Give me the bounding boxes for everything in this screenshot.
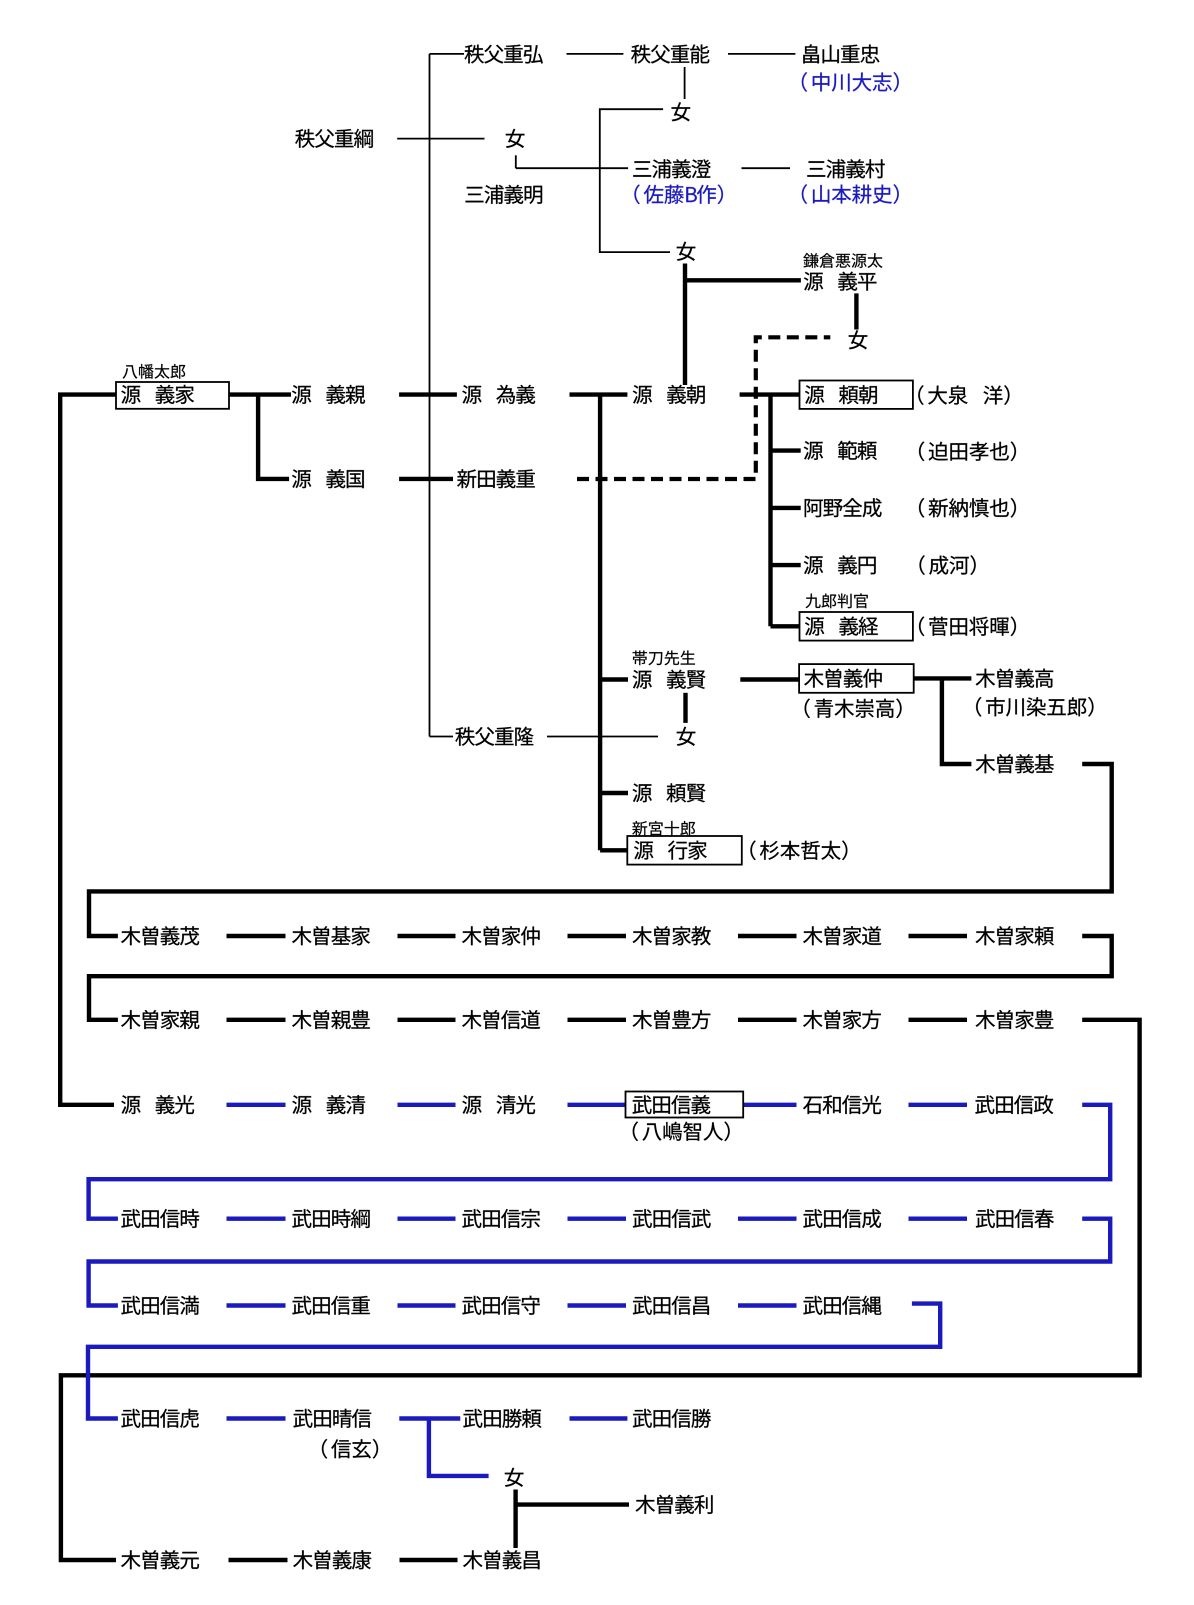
node （山本耕史） <box>802 184 899 204</box>
wire 重能-畠山重忠 <box>728 53 795 55</box>
node 木曽家親 <box>121 1010 199 1029</box>
wire row22 line 0 <box>227 1303 286 1307</box>
wire 女-木曽義利 <box>516 1502 629 1506</box>
wire 義清-清光 <box>398 1103 456 1107</box>
node 木曽義康 <box>293 1550 371 1569</box>
node 武田信重 <box>292 1296 369 1315</box>
wire row18 line 1 <box>398 934 456 938</box>
wire 信義box-石和信光 <box>743 1103 796 1107</box>
wire 義賢-義仲box <box>740 677 799 681</box>
wire 義元-義康 <box>229 1558 288 1562</box>
wire 信春-信満 connector <box>89 1219 1111 1306</box>
node 三浦義澄 <box>633 159 711 178</box>
node 武田勝頼 <box>463 1409 541 1428</box>
wire 義国-新田義重 <box>399 477 453 481</box>
wire 秩父 vertical <box>429 54 431 737</box>
wire 女-義昌 vertical <box>513 1490 517 1549</box>
wire 家豊-木曽義元 connector <box>61 1020 1140 1560</box>
node 源義清 <box>292 1095 365 1114</box>
node 源義経 <box>805 617 878 636</box>
wire 義平-女 vertical <box>854 293 858 329</box>
node 秩父重能 <box>631 44 709 63</box>
node 木曽豊方 <box>633 1010 711 1029</box>
node 秩父重弘 <box>465 45 543 64</box>
node 九郎判官 <box>806 593 868 608</box>
wire 義賢-女 vertical <box>683 693 687 723</box>
node 武田信勝 <box>633 1409 711 1428</box>
wire 義康-義昌 <box>400 1558 458 1562</box>
wire 晴信-勝頼 <box>399 1416 460 1420</box>
wire 重弘-重能 <box>567 53 624 55</box>
wire row21 line 0 <box>227 1216 286 1220</box>
node 秩父重綱 <box>295 129 373 148</box>
box 源義家 <box>116 382 229 409</box>
node 帯刀先生 <box>633 650 695 665</box>
wire 義経 stub <box>771 624 800 628</box>
wire 行家 stub <box>600 848 627 852</box>
wire row22 line 3 <box>738 1303 797 1307</box>
wire row21 line 4 <box>909 1216 968 1220</box>
node 木曽義元 <box>121 1550 199 1569</box>
wire row18 line 0 <box>227 934 286 938</box>
node 女 <box>506 129 525 148</box>
node 木曽家仲 <box>462 926 540 945</box>
wire row21 line 1 <box>398 1216 456 1220</box>
wire 重綱-女 <box>397 138 484 140</box>
wire 義光-義清 <box>227 1103 286 1107</box>
wire 義基-木曽義茂 connector <box>89 764 1112 936</box>
node 木曽義昌 <box>463 1550 539 1569</box>
node （迫田孝也） <box>919 441 1016 461</box>
wire 新田義重-女 dashed <box>577 337 830 479</box>
node 木曽義基 <box>976 754 1054 773</box>
wire 範頼 stub <box>771 448 801 452</box>
wire 義円 stub <box>771 563 801 567</box>
wire row19 line 1 <box>398 1018 456 1022</box>
wire 家頼-家親 connector <box>89 936 1112 1020</box>
node 秩父重隆 <box>455 727 533 746</box>
node 源清光 <box>462 1095 535 1114</box>
node 源義家 <box>121 385 194 404</box>
wire 義親 sibling vertical <box>258 395 289 479</box>
wire 晴信-女 vertical <box>429 1419 489 1476</box>
node （中川大志） <box>802 72 899 92</box>
node 武田信縄 <box>803 1296 881 1315</box>
wire 女-義澄 <box>516 167 628 169</box>
node 新田義重 <box>457 469 535 488</box>
wire 勝頼-信勝 <box>570 1416 628 1420</box>
box 源頼朝 <box>800 381 913 409</box>
wire 信縄-信虎 connector <box>88 1304 940 1419</box>
node 武田信武 <box>633 1209 711 1228</box>
node 女 <box>849 330 868 349</box>
node （佐藤B作） <box>634 184 723 204</box>
wire 重隆-女 <box>547 736 658 738</box>
node （成河） <box>920 555 976 575</box>
node 木曽信道 <box>462 1010 540 1029</box>
wire 石和信光-信政 <box>909 1103 968 1107</box>
node 源義平 <box>804 272 877 291</box>
wire 為義 children vertical <box>598 395 602 851</box>
wire 義澄-義村 <box>742 167 791 169</box>
wire 義仲box-義高 <box>914 676 972 680</box>
wire row19 line 3 <box>738 1018 797 1022</box>
node 源義光 <box>121 1095 194 1114</box>
node 木曽家方 <box>803 1010 881 1029</box>
wire 信政-信時 connector <box>89 1105 1111 1219</box>
box 源行家 <box>627 836 742 865</box>
wire 女-義明 vertical <box>515 155 517 168</box>
wire 女-義朝 vertical <box>683 264 687 386</box>
node 木曽家道 <box>803 926 881 945</box>
node 鎌倉悪源太 <box>803 253 882 268</box>
node （菅田将暉） <box>919 616 1016 636</box>
wire 秩父重隆 stub <box>430 736 454 738</box>
wire row21 line 2 <box>568 1216 627 1220</box>
node 木曽義仲 <box>804 669 882 688</box>
node 木曽基家 <box>292 926 370 945</box>
node 源行家 <box>634 841 707 860</box>
node 木曽義茂 <box>121 926 199 945</box>
node 源頼朝 <box>805 385 877 404</box>
node 源義国 <box>292 469 364 488</box>
wire 秩父重弘 left stub <box>430 53 465 55</box>
node 武田信政 <box>975 1095 1053 1114</box>
wire 重能-女 vertical <box>684 67 686 99</box>
node 木曽家頼 <box>976 926 1054 945</box>
wire 為義-義朝 <box>570 392 628 396</box>
node 女 <box>672 102 691 121</box>
wire 義朝-頼朝box <box>740 392 800 396</box>
node 石和信光 <box>803 1095 881 1114</box>
wire 義親-為義 <box>399 392 457 396</box>
node 女 <box>677 727 696 746</box>
node 武田信宗 <box>462 1209 539 1228</box>
node 三浦義村 <box>807 159 884 178</box>
wire row18 line 4 <box>909 934 968 938</box>
node 源為義 <box>462 385 535 404</box>
wire 女-義平 <box>685 278 801 282</box>
wire 義賢 stub <box>600 677 628 681</box>
node （信玄） <box>322 1439 378 1459</box>
node 武田時綱 <box>292 1209 369 1228</box>
wire row22 line 1 <box>398 1303 456 1307</box>
wire row19 line 0 <box>227 1018 286 1022</box>
node 武田信昌 <box>633 1296 709 1315</box>
node （杉本哲太） <box>750 840 847 860</box>
wire 義朝 children vertical <box>768 395 772 627</box>
wire row18 line 3 <box>738 934 797 938</box>
wire 義高 sibling vertical <box>942 678 972 764</box>
node 木曽家教 <box>633 926 711 945</box>
node 武田信春 <box>976 1209 1054 1228</box>
node 木曽義高 <box>976 669 1053 688</box>
wire row19 line 2 <box>568 1018 627 1022</box>
node 源義円 <box>804 555 876 574</box>
box 源義経 <box>800 612 913 641</box>
box 武田信義 <box>626 1092 744 1118</box>
node 源義賢 <box>633 670 706 689</box>
node 源頼賢 <box>633 783 706 802</box>
node 武田信守 <box>462 1296 539 1315</box>
node 武田信虎 <box>121 1409 198 1428</box>
node （新納慎也） <box>919 498 1016 518</box>
node 女 <box>677 242 696 261</box>
node 木曽親豊 <box>292 1010 370 1029</box>
box 木曽義仲 <box>799 664 914 693</box>
node 武田信義 <box>633 1095 711 1114</box>
node 三浦義明 <box>466 185 543 204</box>
node 武田信成 <box>803 1209 881 1228</box>
node （大泉洋） <box>918 385 1009 405</box>
node 源義親 <box>292 385 365 404</box>
node （市川染五郎） <box>976 697 1093 717</box>
node 畠山重忠 <box>803 44 879 63</box>
wire row22 line 2 <box>568 1303 627 1307</box>
node 木曽家豊 <box>976 1010 1054 1029</box>
node 女 <box>505 1468 524 1487</box>
wire 清光-信義box <box>568 1103 626 1107</box>
node 武田信時 <box>121 1209 199 1228</box>
node 阿野全成 <box>805 498 882 517</box>
wire 女-義澄母line <box>600 109 670 252</box>
wire 信虎-晴信 <box>227 1416 286 1420</box>
wire 全成 stub <box>771 506 801 510</box>
wire 義家 left <box>60 395 116 1105</box>
node 木曽義利 <box>636 1495 713 1514</box>
node 新宮十郎 <box>632 821 695 836</box>
wire row19 line 4 <box>909 1018 968 1022</box>
node 源義朝 <box>633 385 705 404</box>
node 武田晴信 <box>293 1409 371 1428</box>
node 武田信満 <box>121 1296 199 1315</box>
wire 頼賢 stub <box>600 791 628 795</box>
wire 義家-義親 <box>229 392 291 396</box>
wire row18 line 2 <box>568 934 627 938</box>
node 八幡太郎 <box>123 364 186 379</box>
wire row21 line 3 <box>738 1216 797 1220</box>
node （八嶋智人） <box>633 1121 730 1141</box>
node 源範頼 <box>804 441 877 460</box>
node （青木崇高） <box>805 698 902 718</box>
